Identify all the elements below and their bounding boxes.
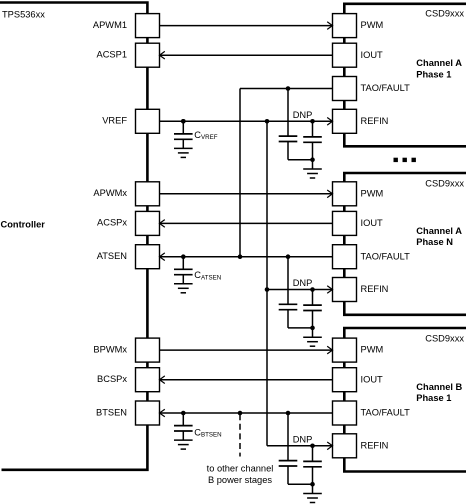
- svg-text:BPWMx: BPWMx: [93, 344, 127, 354]
- svg-text:APWM1: APWM1: [93, 20, 127, 30]
- svg-text:CSD9xxx: CSD9xxx: [425, 9, 464, 19]
- svg-text:REFIN: REFIN: [361, 440, 389, 450]
- svg-text:Phase 1: Phase 1: [416, 393, 451, 403]
- svg-text:ACSPx: ACSPx: [97, 218, 127, 228]
- svg-text:Phase N: Phase N: [416, 237, 453, 247]
- svg-text:CSD9xxx: CSD9xxx: [425, 333, 464, 343]
- svg-text:Channel B: Channel B: [416, 382, 462, 392]
- svg-text:IOUT: IOUT: [361, 50, 384, 60]
- svg-text:DNP: DNP: [293, 278, 313, 288]
- svg-text:Channel A: Channel A: [416, 58, 462, 68]
- svg-text:B power stages: B power stages: [208, 475, 272, 485]
- svg-text:Controller: Controller: [1, 220, 46, 230]
- svg-text:TAO/FAULT: TAO/FAULT: [361, 83, 411, 93]
- svg-text:TAO/FAULT: TAO/FAULT: [361, 408, 411, 418]
- svg-text:VREF: VREF: [102, 116, 127, 126]
- svg-text:to other channel: to other channel: [207, 464, 274, 474]
- svg-text:DNP: DNP: [293, 110, 313, 120]
- svg-text:REFIN: REFIN: [361, 116, 389, 126]
- svg-text:APWMx: APWMx: [93, 188, 127, 198]
- svg-text:Phase 1: Phase 1: [416, 69, 451, 79]
- svg-text:IOUT: IOUT: [361, 374, 384, 384]
- svg-text:PWM: PWM: [361, 345, 384, 355]
- svg-text:ACSP1: ACSP1: [97, 50, 128, 60]
- svg-text:TAO/FAULT: TAO/FAULT: [361, 251, 411, 261]
- svg-text:TPS536xx: TPS536xx: [2, 10, 45, 20]
- svg-text:PWM: PWM: [361, 188, 384, 198]
- svg-text:BCSPx: BCSPx: [97, 374, 127, 384]
- svg-text:DNP: DNP: [293, 435, 313, 445]
- svg-text:CSD9xxx: CSD9xxx: [425, 178, 464, 188]
- svg-text:BTSEN: BTSEN: [96, 407, 127, 417]
- svg-text:IOUT: IOUT: [361, 218, 384, 228]
- svg-text:ATSEN: ATSEN: [97, 251, 127, 261]
- svg-text:PWM: PWM: [361, 20, 384, 30]
- svg-text:Channel A: Channel A: [416, 226, 462, 236]
- svg-text:REFIN: REFIN: [361, 284, 389, 294]
